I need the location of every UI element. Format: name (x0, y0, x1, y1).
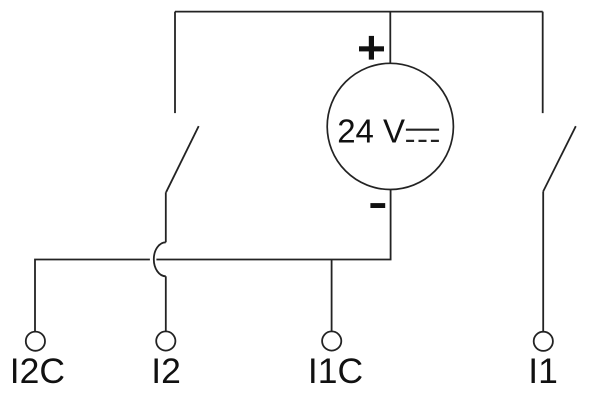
wire left switch upper lead (174, 12, 176, 114)
svg-text:24 V: 24 V (337, 112, 405, 149)
power supply PS1 24V source circle (327, 63, 453, 189)
svg-text:I1: I1 (528, 351, 558, 391)
wire right switch lower lead to terminal I1 (542, 191, 544, 331)
wire supply positive lead (389, 12, 391, 64)
terminal I2 (156, 331, 175, 350)
DC symbol solid line (406, 129, 439, 131)
switch S1 blade (543, 126, 576, 191)
wire left switch lower lead to hop (165, 192, 167, 242)
svg-text:I2: I2 (151, 351, 181, 391)
svg-text:I1C: I1C (308, 351, 363, 391)
svg-text:I2C: I2C (10, 351, 65, 391)
wire from hop down to terminal I2 (165, 276, 167, 331)
wire from bottom bus down to terminal I1C (331, 260, 333, 332)
wire right switch upper lead (542, 12, 544, 114)
wire bottom left segment with corner down to terminal I2C (35, 260, 150, 332)
switch S2 blade (166, 126, 199, 192)
minus sign at supply negative (370, 203, 385, 208)
terminal I2C (26, 332, 45, 351)
terminal I1 (534, 332, 553, 351)
wire top bus from left switch to right switch (175, 11, 543, 13)
plus sign at supply positive (359, 36, 384, 60)
DC symbol dashed line (406, 140, 439, 142)
wire hop crossing over bottom wire (154, 242, 166, 276)
wire supply negative lead down and left along bottom (156, 190, 390, 260)
terminal I1C (322, 331, 341, 350)
